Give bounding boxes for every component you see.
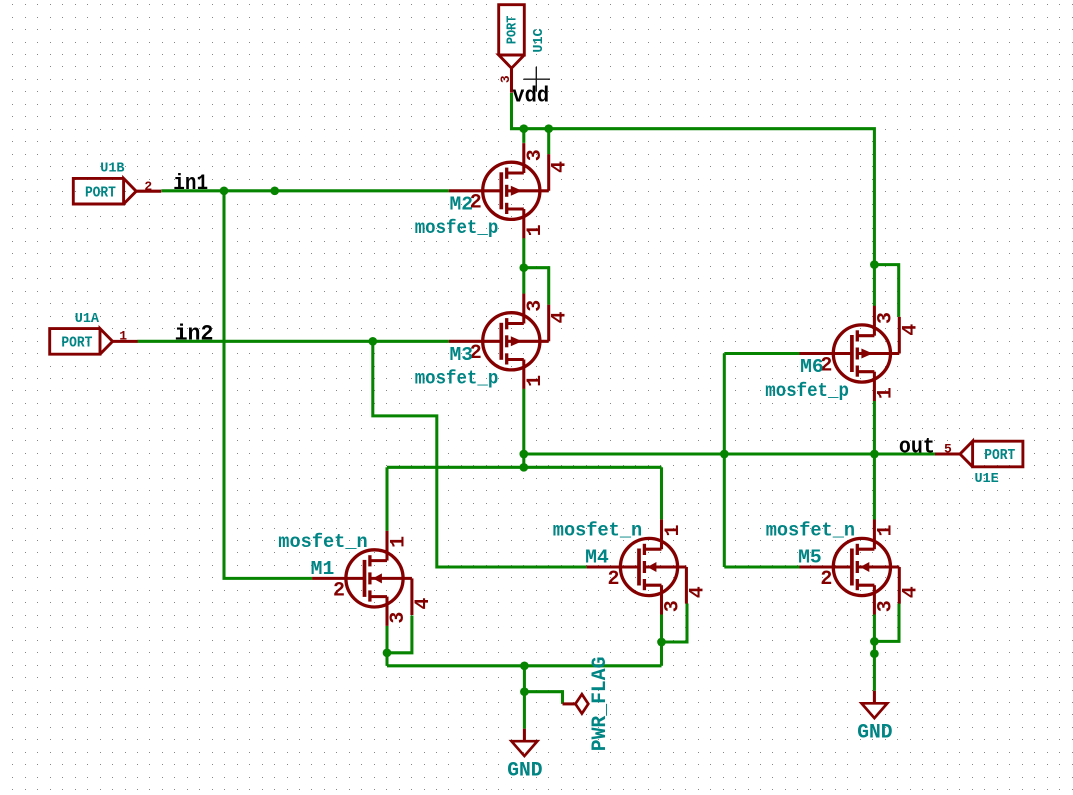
svg-text:1: 1 [387,536,410,548]
wire M1-M4 drain rail [387,466,662,469]
svg-text:2: 2 [820,568,832,591]
wire vdd to M6 source [873,265,876,306]
value mosfet_n of M5 [766,520,855,542]
svg-text:5: 5 [944,441,952,456]
value mosfet_n of M4 [553,520,642,542]
M4 pin 4 number [686,586,709,598]
svg-text:vdd: vdd [512,84,549,109]
wire vdd to M2 pin4 [547,129,550,155]
port U1E pin number 5 [944,441,952,456]
wire to M6 gate [724,352,799,355]
ground symbol GND mid triangle [512,741,538,756]
svg-text:GND: GND [857,721,892,744]
svg-text:in1: in1 [173,171,208,196]
M6 pin 3 number [875,312,898,324]
svg-text:4: 4 [549,311,572,323]
PWR_FLAG stub [563,702,576,705]
transistor M2 body [449,143,549,238]
transistor M6 body [800,306,900,401]
svg-text:PORT: PORT [504,16,520,44]
M3 pin 1 number [524,375,547,387]
wire M1 source down [385,626,388,666]
cursor crosshair [524,67,551,92]
wire out to M5 drain [873,454,876,520]
junction out mid [720,450,729,459]
junction GND PWR_FLAG node [520,687,529,696]
M3 pin 4 number [549,311,572,323]
svg-text:3: 3 [524,300,547,312]
junction M6 top [870,260,879,269]
M1 pin 1 number [387,536,410,548]
wire M6 bulk loop [874,265,898,317]
wire out branch vertical [723,354,726,568]
svg-text:3: 3 [498,75,513,83]
port reference U1C [532,28,547,52]
svg-text:mosfet_n: mosfet_n [278,531,367,553]
M6 pin 2 number [820,354,832,377]
M6 pin 4 number [899,324,922,336]
svg-text:3: 3 [524,149,547,161]
svg-text:U1A: U1A [75,312,100,327]
junction vdd M2 pin3 [519,124,528,133]
net label in2 [175,322,214,347]
svg-text:U1B: U1B [100,161,124,176]
label M6 [800,356,824,378]
svg-text:PORT: PORT [984,448,1015,464]
wire M5 source to GND [873,615,876,691]
wire to GND mid [523,666,526,729]
port U1B pin number 2 [144,179,152,194]
port U1C pin [510,68,513,93]
wire M4 source down [660,615,663,666]
svg-text:4: 4 [899,324,922,336]
wire M3 bulk loop [524,268,549,305]
junction vdd M2 pin4 [544,124,553,133]
svg-text:3: 3 [875,600,898,612]
port U1E (out) flag [960,441,1023,467]
svg-text:mosfet_p: mosfet_p [415,217,499,239]
label M4 [585,547,609,569]
svg-text:mosfet_p: mosfet_p [415,368,499,390]
transistor M4 body [587,520,687,615]
M2 pin 2 number [470,192,482,215]
junction M5 source node B [870,649,879,658]
junction M4 source node [657,638,666,647]
svg-text:M3: M3 [450,344,474,366]
wire M5 bulk loop [874,604,899,642]
junction M5 source node A [870,637,879,646]
M5 pin 2 number [820,568,832,591]
ground symbol GND right triangle [862,703,888,718]
ground symbol GND right stub [873,691,876,704]
svg-text:PORT: PORT [85,185,116,201]
junction in1 A [220,186,229,195]
svg-text:3: 3 [662,600,685,612]
svg-text:1: 1 [875,524,898,536]
port U1B (in1) flag [73,178,136,204]
port U1A pin number 1 [119,328,127,343]
M2 pin 1 number [524,224,547,236]
junction out right [870,450,879,459]
svg-text:1: 1 [524,224,547,236]
svg-text:2: 2 [144,179,152,194]
wire in1 net [161,189,449,192]
M4 pin 1 number [662,524,685,536]
wire in1 to M1 gate [224,191,312,579]
port U1B pin [136,190,161,193]
junction in2 branch [368,337,377,346]
net label vdd [512,84,549,109]
M2 pin 3 number [524,149,547,161]
svg-text:3: 3 [875,312,898,324]
wire M4 bulk loop [662,604,688,643]
M4 pin 2 number [607,568,619,591]
svg-text:1: 1 [119,328,127,343]
junction bottom rail GND [520,661,529,670]
PWR_FLAG label [589,657,612,752]
junction drain rail [519,463,528,472]
svg-text:U1C: U1C [532,28,547,52]
wire in2 net [137,340,449,343]
svg-text:in2: in2 [175,322,214,347]
port U1A pin [113,340,138,343]
port reference U1E [974,472,998,487]
ground symbol GND mid stub [523,729,526,742]
svg-text:3: 3 [387,612,410,624]
port reference U1A [75,312,100,327]
svg-text:2: 2 [607,568,619,591]
wire M1 bulk loop [387,616,412,653]
wire out net [524,452,937,455]
svg-text:M6: M6 [800,356,824,378]
transistor M3 body [449,294,549,389]
M6 pin 1 number [875,387,898,399]
svg-text:mosfet_n: mosfet_n [766,520,855,542]
M1 pin 2 number [333,579,345,602]
junction M2 drain node [519,263,528,272]
svg-text:M1: M1 [311,558,335,580]
net label in1 [173,171,208,196]
transistor M5 body [800,520,900,615]
svg-text:M2: M2 [450,194,474,216]
net label out [899,435,935,460]
ground label GND (GND right) [857,721,892,744]
wire bottom rail [387,664,662,667]
svg-text:PWR_FLAG: PWR_FLAG [589,657,612,752]
PWR_FLAG diamond [575,694,588,713]
port U1E pin [935,452,960,455]
svg-text:4: 4 [549,161,572,173]
M5 pin 4 number [899,586,922,598]
wire in2 to M4 gate [373,341,587,567]
svg-text:PORT: PORT [61,336,92,352]
M3 pin 3 number [524,300,547,312]
wire drain rail to M1 [385,467,388,531]
value mosfet_n of M1 [278,531,367,553]
svg-text:4: 4 [686,586,709,598]
svg-text:out: out [899,435,935,460]
svg-text:M5: M5 [798,547,822,569]
wire M2 drain to M3 source [522,238,525,294]
wire M6 drain to out [873,401,876,454]
ground label GND (GND mid) [507,759,542,782]
svg-text:mosfet_n: mosfet_n [553,520,642,542]
svg-text:U1E: U1E [974,472,998,487]
svg-text:mosfet_p: mosfet_p [765,380,849,402]
wire to PWR_FLAG [524,692,562,704]
svg-text:1: 1 [524,375,547,387]
svg-text:GND: GND [507,759,542,782]
label M5 [798,547,822,569]
wire drain rail to M4 [660,467,663,519]
svg-text:1: 1 [662,524,685,536]
svg-text:M4: M4 [585,547,609,569]
svg-text:4: 4 [412,598,435,610]
label M2 [450,194,474,216]
svg-text:1: 1 [875,387,898,399]
value mosfet_p of M3 [415,368,499,390]
M5 pin 1 number [875,524,898,536]
label M3 [450,344,474,366]
M5 pin 3 number [875,600,898,612]
wire M3 drain down [522,389,525,468]
value mosfet_p of M6 [765,380,849,402]
M1 pin 3 number [387,612,410,624]
junction M1 source node [383,648,392,657]
M3 pin 2 number [470,342,482,365]
label M1 [311,558,335,580]
port U1C (vdd) flag [499,5,525,68]
port reference U1B [100,161,124,176]
svg-text:2: 2 [333,579,345,602]
wire vdd to M2 pin3 [522,129,525,143]
M1 pin 4 number [412,598,435,610]
port U1A (in2) flag [50,329,113,355]
M2 pin 4 number [549,161,572,173]
value mosfet_p of M2 [415,217,499,239]
junction out left [519,450,528,459]
M4 pin 3 number [662,600,685,612]
transistor M1 body [312,531,412,626]
wire to M5 gate [724,565,799,568]
port U1C pin number 3 [498,75,513,83]
wire vdd rail [512,93,875,265]
junction in1 B [270,186,279,195]
svg-text:4: 4 [899,586,922,598]
